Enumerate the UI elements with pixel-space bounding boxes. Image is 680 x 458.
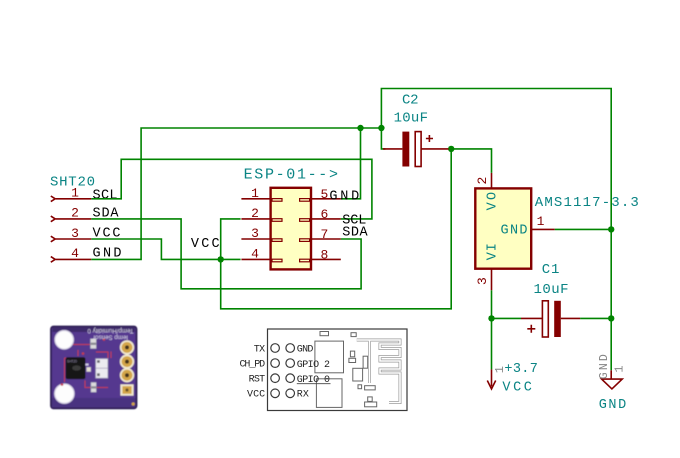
drawing ESP-01 GPIO0 underline [297, 383, 331, 385]
connector J1 pin 4 chevron [51, 257, 55, 263]
drawing ESP-01 antenna [357, 340, 400, 403]
wire AMS pin1 GND to right rail [555, 228, 612, 230]
svg-text:TX: TX [254, 344, 266, 355]
connector P1 pin 7 line [311, 238, 341, 240]
svg-text:VCC: VCC [502, 381, 532, 396]
connector P1 pin 1 line [241, 198, 270, 200]
wire C1 left stub [492, 317, 522, 319]
connector J1 pin 2 chevron [51, 216, 55, 222]
connector P1 pin 5 socket [300, 199, 310, 202]
power symbol GND triangle [602, 379, 623, 389]
connector P1 pin 4 line [241, 258, 270, 260]
connector P1 body [271, 188, 311, 270]
wire C1 right stub [580, 317, 611, 319]
connector P1 pin 4 socket [272, 259, 282, 262]
junction at GND rail x360.5 [357, 125, 363, 131]
svg-text:5: 5 [320, 187, 328, 202]
junction at AMS pin1 right rail [608, 226, 614, 232]
connector P1 pin 7 socket [300, 239, 310, 242]
connector J1 pin 1 chevron [51, 196, 55, 202]
capacitor C2 left pin stub [383, 148, 402, 150]
svg-text:VI: VI [486, 243, 501, 260]
wire SDA from SHT20 pin2 [91, 219, 361, 289]
connector J1 pin 2 line [56, 218, 92, 220]
capacitor C1 right pin stub [561, 317, 580, 319]
connector P1 pin 3 line [241, 238, 270, 240]
regulator U1 pin 3 line bottom [491, 269, 493, 291]
regulator U1 pin 1 line right [531, 228, 555, 230]
connector P1 pin 6 socket [300, 219, 310, 222]
connector J1 pin 3 line [56, 238, 92, 240]
wire AMS pin3 VI down to C1 left [491, 290, 493, 369]
svg-text:GND: GND [599, 398, 627, 413]
junction at ESP pin4 VCC [218, 256, 224, 262]
svg-text:SHT20: SHT20 [67, 359, 77, 363]
svg-text:GPIO 2: GPIO 2 [297, 360, 330, 371]
connector J1 pin 4 line [56, 258, 92, 260]
svg-text:SCL: SCL [93, 188, 118, 203]
regulator U1 body [475, 188, 531, 268]
connector P1 pin 3 socket [272, 239, 282, 242]
junction at C1 left [488, 315, 494, 321]
svg-text:GND: GND [297, 344, 314, 355]
svg-text:3: 3 [251, 226, 259, 241]
svg-text:6: 6 [320, 207, 328, 222]
svg-text:+3.7: +3.7 [504, 362, 537, 377]
power symbol VCC +3.7 pin stub [491, 369, 493, 386]
wire VCC C2 right to AMS VO [449, 149, 492, 173]
svg-text:VCC: VCC [247, 390, 265, 401]
svg-text:2: 2 [251, 206, 259, 221]
wire GND to C2 left [381, 128, 385, 149]
svg-text:C2: C2 [402, 92, 419, 108]
connector P1 pin 1 socket [272, 199, 282, 202]
svg-text:GND: GND [598, 354, 611, 379]
junction at C1 right rail [608, 315, 614, 321]
svg-text:10uF: 10uF [534, 282, 569, 298]
power symbol GND pin stub [610, 370, 612, 379]
junction at GND rail x381.4 [378, 125, 384, 131]
drawing ESP-01 module [268, 329, 408, 411]
junction at C2 right [448, 146, 454, 152]
svg-text:1: 1 [251, 186, 259, 201]
svg-text:2: 2 [71, 206, 79, 221]
svg-text:SDA: SDA [342, 225, 368, 240]
wire GND from SHT20 pin4 [91, 128, 381, 259]
svg-text:1: 1 [613, 365, 627, 372]
connector P1 pin 2 line [241, 218, 270, 220]
connector P1 pin 8 line [311, 258, 341, 260]
svg-text:RX: RX [297, 390, 309, 401]
capacitor C2 right pin stub [421, 148, 448, 150]
svg-text:2: 2 [475, 177, 490, 185]
connector P1 pin 2 socket [272, 219, 282, 222]
wire SCL from SHT20 pin1 [91, 159, 372, 219]
svg-text:3: 3 [475, 277, 490, 285]
svg-text:Temp/Humidity 0: Temp/Humidity 0 [87, 327, 134, 334]
svg-text:Iemp Sensor: Iemp Sensor [93, 333, 128, 340]
capacitor C1 right plate [554, 301, 561, 337]
svg-text:C1: C1 [542, 262, 560, 278]
regulator U1 pin 2 line top [491, 173, 493, 189]
svg-text:GND: GND [501, 224, 528, 239]
svg-text:8: 8 [320, 248, 328, 263]
svg-text:AMS1117-3.3: AMS1117-3.3 [535, 195, 639, 211]
svg-text:GPIO 0: GPIO 0 [297, 375, 330, 386]
svg-text:GND: GND [329, 189, 359, 204]
wire VCC from SHT20 pin3 [91, 239, 240, 259]
svg-text:7: 7 [320, 227, 328, 242]
capacitor C2 left plate [402, 132, 409, 167]
svg-text:10uF: 10uF [394, 110, 428, 126]
capacitor C1 left plate [542, 301, 548, 337]
wire VCC ESP pin2 branch [221, 149, 452, 309]
connector J1 pin 1 line [56, 198, 92, 200]
capacitor C1 left pin stub [521, 317, 542, 319]
wire GND top rail [381, 89, 611, 371]
svg-text:1: 1 [537, 214, 545, 229]
connector P1 pin 5 line [311, 198, 341, 200]
svg-text:RST: RST [249, 375, 266, 386]
svg-text:VCC: VCC [191, 237, 220, 252]
drawing ESP-01 labels [240, 344, 331, 400]
capacitor C1 plus sign [527, 325, 535, 333]
svg-text:1: 1 [71, 186, 79, 201]
connector P1 pin 6 line [311, 218, 341, 220]
svg-text:CH_PD: CH_PD [240, 360, 266, 371]
svg-text:ESP-01-->: ESP-01--> [244, 166, 338, 183]
svg-text:3: 3 [71, 226, 79, 241]
svg-text:4: 4 [251, 247, 259, 262]
wire GND rail to ESP pin5 [341, 128, 361, 199]
capacitor C2 plus sign [426, 135, 433, 142]
power symbol VCC arrowhead [487, 381, 495, 389]
connector P1 pin 8 socket [300, 259, 310, 262]
capacitor C2 right plate [415, 132, 421, 167]
connector J1 pin 3 chevron [51, 236, 55, 242]
svg-text:4: 4 [71, 246, 79, 261]
